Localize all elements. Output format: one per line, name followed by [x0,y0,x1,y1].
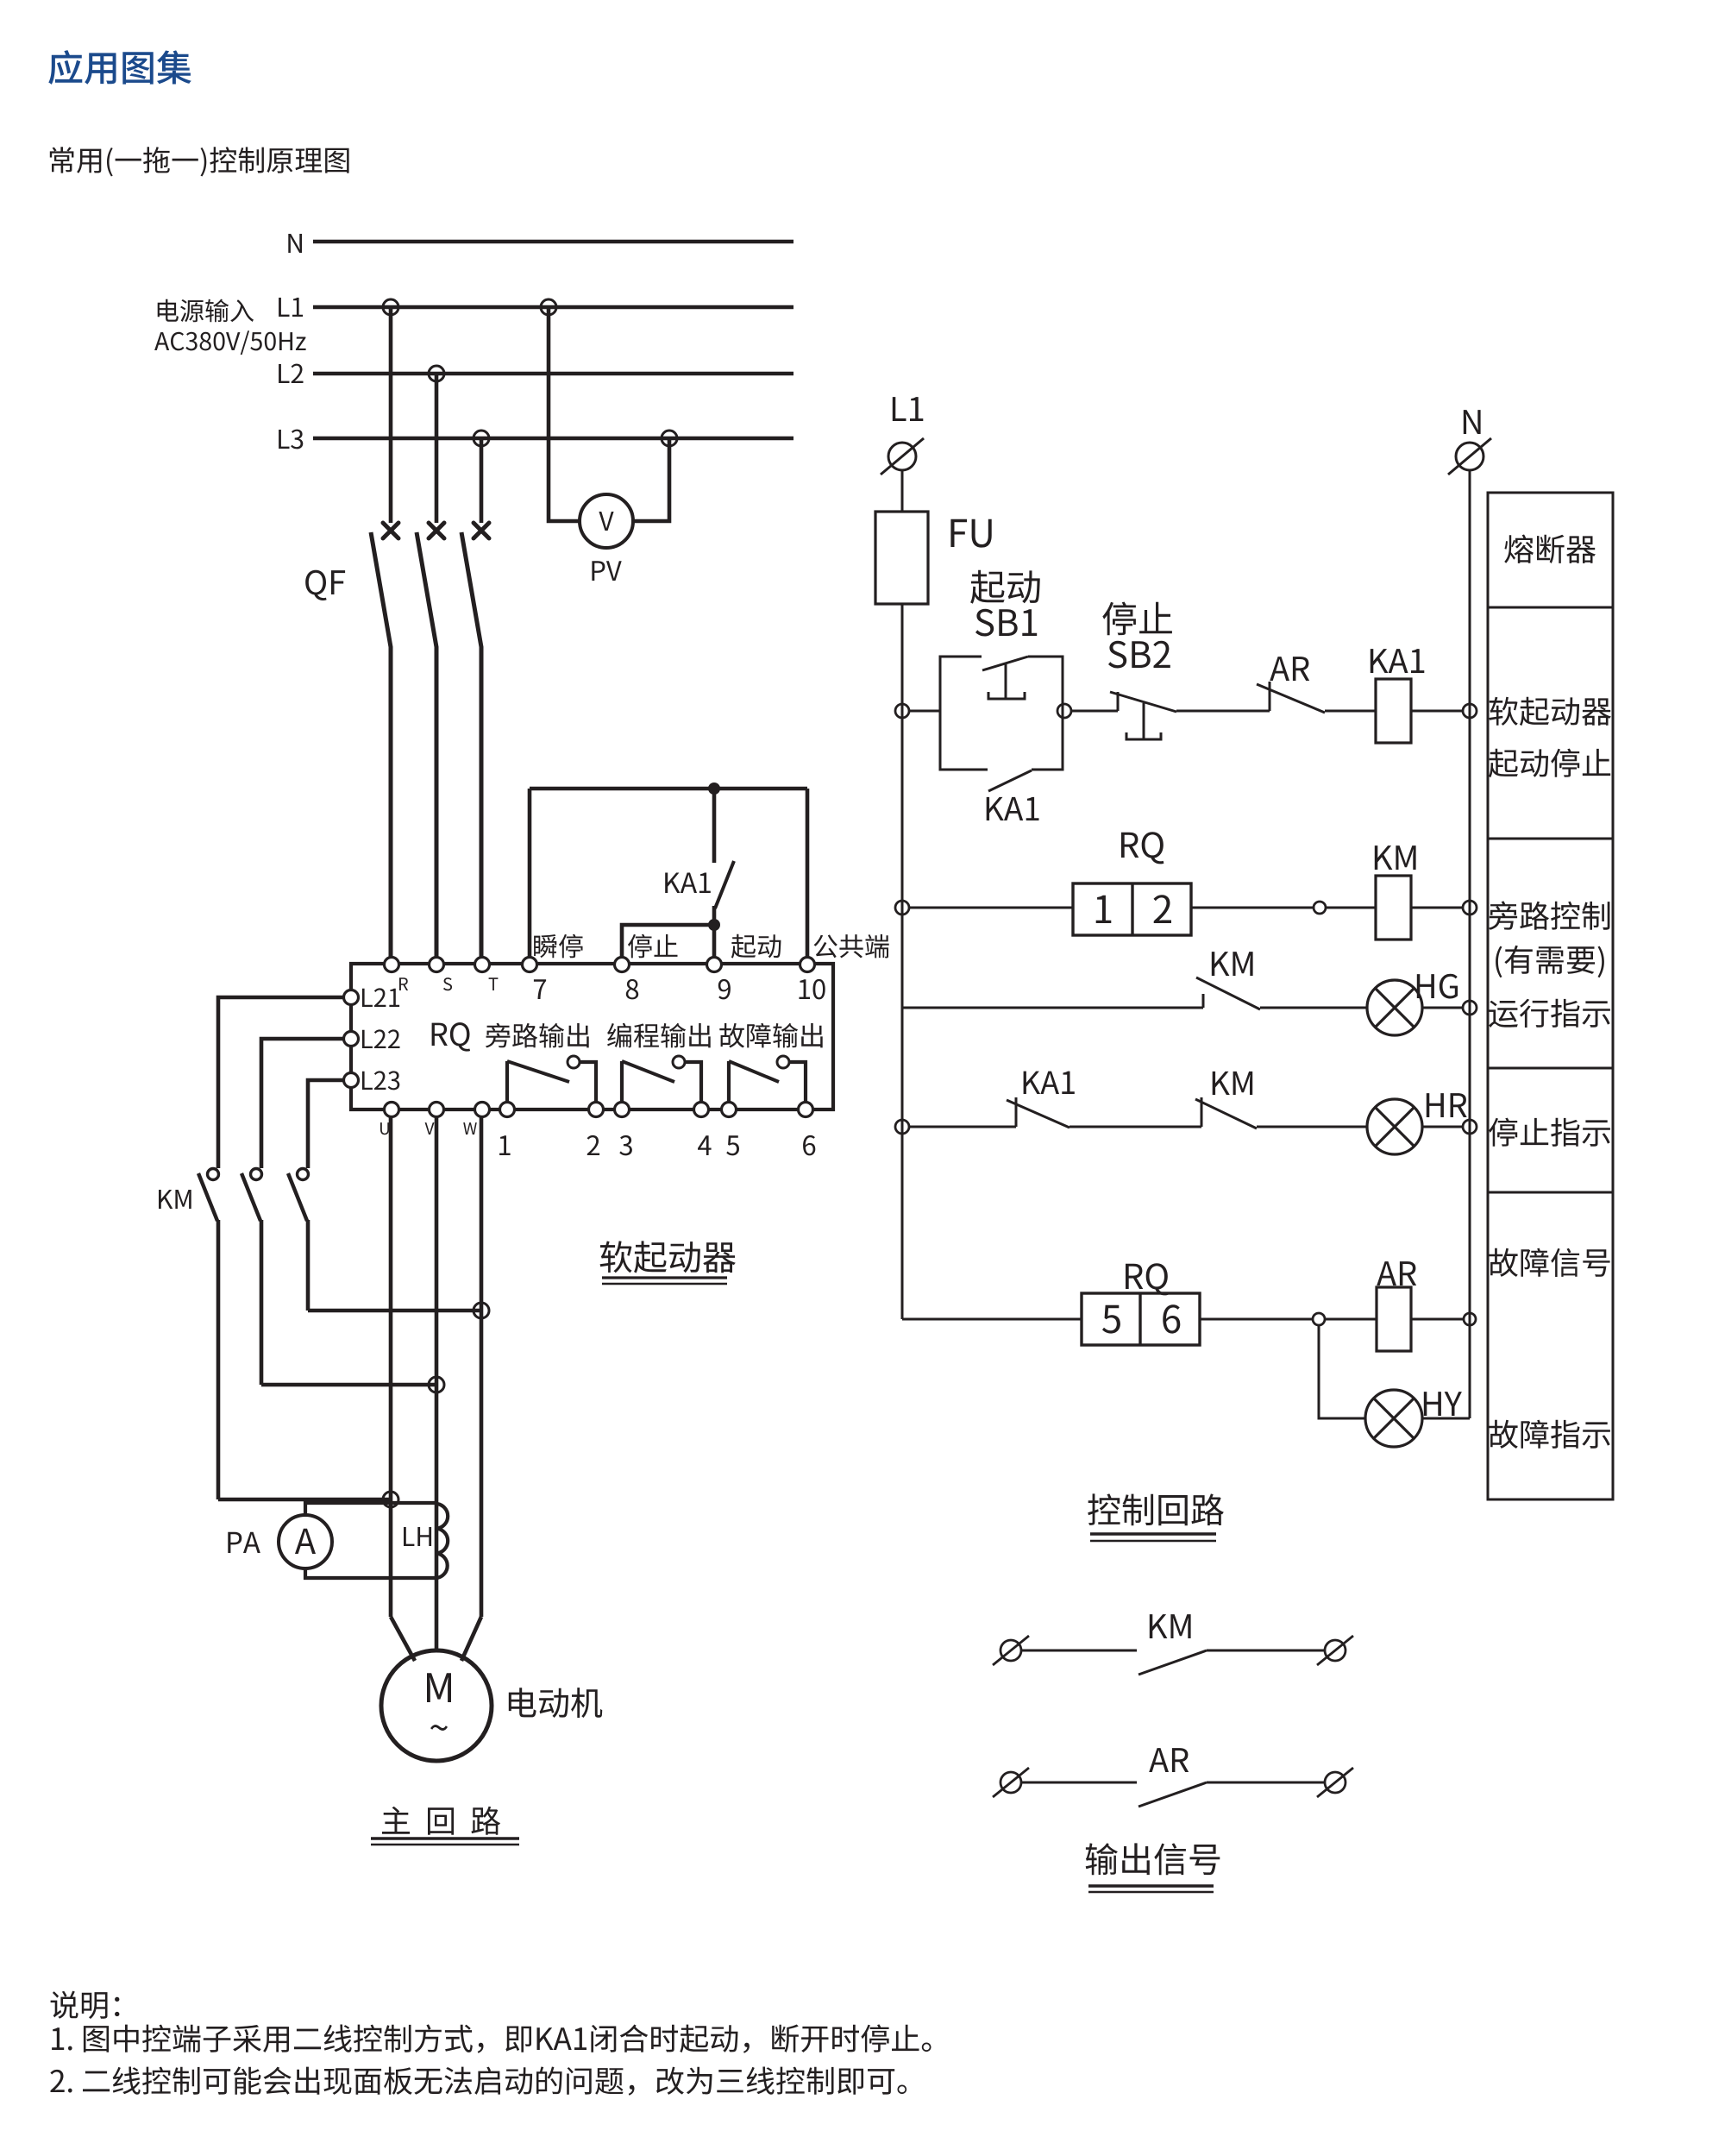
wire rung2 c [1326,907,1376,909]
wire rung4 a [909,1126,1016,1128]
wire rung2 b [1191,907,1314,909]
wire L2 tap to QF pole 2 [435,374,439,523]
wire rung4 b [1069,1126,1201,1128]
terminal 10 [800,958,825,1000]
contact AR break (NC) [1257,682,1325,713]
wire rung1 a [909,710,940,713]
junction V bypass [429,1377,444,1392]
terminal 6 [799,1103,816,1156]
circuit breaker QF pole 3 [461,523,489,958]
wire rung1 e [1411,710,1463,713]
junction U bypass [383,1492,398,1507]
node L3 bus label [279,430,303,449]
wire rung5 b [1200,1318,1313,1321]
label KM aux contact [1212,952,1253,976]
junction above terminal 9 [708,919,720,931]
label RQ block 1-2 [1121,832,1164,864]
pushbutton SB1 start with parallel KA1 contact bracket [940,657,1063,770]
junction L3-QF [474,431,489,446]
circuit breaker QF label [305,570,345,600]
terminal block RQ 1-2 [1073,883,1191,935]
wire N rail [1469,470,1471,1418]
wire L2 bus [313,372,793,376]
wire L1 rail [901,604,904,1319]
terminal R [385,958,409,991]
circuit breaker QF pole 1 [371,523,398,958]
terminal 5 [722,1103,740,1156]
contact KM aux NO [1196,977,1260,1009]
subtitle 常用(一拖一)控制原理图 [50,147,349,176]
terminal T [475,958,499,991]
table cell 旁路控制(有需要)运行指示 [1489,901,1610,1028]
label RQ inside box [432,1022,470,1052]
terminal L21 [344,988,400,1007]
relay coil AR [1377,1287,1411,1351]
label HR [1427,1093,1467,1117]
node N bus label [288,234,302,253]
contact KM break (NC) [1195,1097,1257,1128]
contact KA1 self-hold blade [988,770,1032,791]
wire rung3 a [902,1007,1203,1009]
wire KM pole1 to U line [218,1498,391,1502]
wire W motor lead [461,1617,481,1661]
label 编程输出 [607,1023,711,1048]
wire rung5 d [1411,1318,1464,1321]
wire L3 tap to QF pole 3 [480,438,484,523]
output contact AR [993,1768,1353,1807]
node L1 bus label [279,298,303,317]
terminal 3 [615,1103,632,1156]
contactor KM pole 3 [288,1169,309,1311]
contact KA1 blade (inside box area) [715,861,734,908]
table function list frame [1488,493,1613,1499]
wire U phase [389,1116,393,1617]
title 主回路 with underline [371,1807,519,1845]
wire rung4 d [1422,1126,1463,1128]
label 瞬停 terminal 7 [534,934,582,959]
wire rung2 a [909,907,1073,909]
lamp HG run indicator [1367,980,1422,1035]
label 起动 SB1 [970,570,1040,637]
terminal 2 [587,1103,604,1156]
relay fault output contact 5-6 [729,1056,806,1103]
pushbutton SB2 stop (NC) [1110,692,1176,739]
wire terminal9 riser [712,906,717,957]
table cell 故障指示 [1490,1420,1610,1449]
label 软起动器 with underline [600,1241,736,1284]
table cell 熔断器 [1504,535,1596,564]
current transformer LH winding [436,1504,448,1578]
contactor KM pole 1 [198,1169,219,1500]
junction rung3 N rail [1463,1001,1477,1015]
table cell 故障信号 [1490,1248,1610,1277]
soft starter RQ outline box [351,964,833,1109]
label 故障输出 [719,1023,822,1048]
junction rung2 left [895,901,909,915]
ammeter PA [279,1515,332,1568]
wire control loop top [530,787,807,791]
voltmeter PV label [592,561,621,581]
contact KA1 break (NC) [1007,1097,1069,1128]
notes 说明 [50,1991,931,2096]
wire rung2 d [1411,907,1463,909]
junction L1-QF [383,299,398,315]
lamp HY fault indicator [1365,1390,1422,1447]
wire W phase [480,1116,484,1617]
terminal L22 [344,1029,400,1048]
wire L21 to KM pole1 [218,997,344,1168]
junction W bypass [474,1303,489,1318]
node L2 bus label [279,364,303,383]
wire rung5 a [902,1318,1082,1321]
label RQ block 5-6 [1126,1263,1168,1295]
relay program output contact 3-4 [622,1056,701,1103]
label AR output contact [1149,1748,1189,1772]
terminal W [463,1103,489,1135]
current transformer LH label [404,1527,431,1546]
label KM coil [1375,845,1416,870]
junction rung1 N rail [1463,704,1477,718]
terminal S [430,958,453,991]
wire L1 rail upper [901,470,904,512]
wire N bus [313,240,793,244]
terminal L23 [344,1071,400,1090]
label KM output contact [1150,1614,1191,1638]
terminal V [425,1103,444,1135]
label AR coil [1377,1261,1416,1285]
wire rung4 c [1257,1126,1367,1128]
page title 应用图集 [48,50,191,85]
wire rung3 c [1422,1007,1463,1009]
fuse FU label [950,519,991,548]
wire terminal7 riser [528,789,532,957]
output contact KM [993,1636,1353,1675]
terminal 7 [523,958,547,1000]
wire L3 bus [313,437,793,441]
wire rung3 b [1260,1007,1367,1009]
wire L3 tap to voltmeter [633,438,669,521]
label 停止 SB2 [1102,602,1172,669]
relay bypass output contact 1-2 [507,1056,596,1103]
wire HY branch down [1319,1325,1365,1418]
label 停止 terminal 8 [628,934,678,959]
wire ammeter bottom [305,1568,437,1578]
terminal 4 [694,1103,712,1156]
junction L2-QF [429,366,444,381]
motor M [381,1650,492,1761]
terminal U [380,1103,399,1135]
junction rung4 N rail [1463,1120,1477,1134]
disconnect terminal N control [1448,438,1491,475]
wire KA1 feed [712,789,717,863]
wire KM pole3 to W line [308,1309,481,1313]
node N control label [1464,410,1481,434]
junction control loop top [708,783,720,795]
wire terminal10 riser [806,789,810,957]
disconnect terminal L1 control [881,438,924,475]
ammeter PA label [228,1532,260,1553]
wire rung1 d [1325,710,1376,713]
node rung1 left [895,704,909,718]
terminal 1 [499,1103,514,1156]
wire rung5 c [1325,1318,1377,1321]
wire U motor lead [391,1617,415,1661]
wire rung1 b [1071,710,1118,713]
node rung5 N rail [1464,1313,1476,1325]
wire HY to N rail [1422,1417,1470,1420]
junction rung4 left [895,1120,909,1134]
wire terminal8 link [622,925,714,957]
fuse FU [875,512,928,604]
wire L1 bus [313,305,793,310]
wire KM pole2 to V line [261,1383,436,1387]
label KA1 (above terminal 9) [665,873,711,894]
pushbutton SB1 contact blade [982,657,1028,699]
label 公共端 terminal 10 [814,934,889,959]
junction rung2 N rail [1463,901,1477,915]
label KA1 break contact [1024,1072,1075,1094]
voltmeter PV [580,494,633,548]
table cell 停止指示 [1489,1118,1610,1147]
title 输出信号 with underline [1086,1843,1220,1892]
wire V phase [435,1116,439,1650]
terminal 9 [707,958,731,1000]
circuit breaker QF pole 2 [417,523,444,958]
contactor KM label [159,1190,191,1209]
wire L22 to KM pole2 [261,1039,344,1168]
label HG [1417,974,1458,999]
junction L3-PV [662,431,677,446]
terminal 8 [615,958,639,1000]
wire rung1 c [1176,710,1270,713]
motor label 电动机 [509,1688,602,1718]
title 控制回路 with underline [1088,1493,1224,1541]
label KA1 self-hold [987,797,1039,820]
label KM break contact [1213,1072,1253,1095]
label HY [1424,1392,1462,1416]
wire L1 tap to voltmeter [549,307,580,521]
relay coil KA1 [1376,679,1411,743]
label 电源输入 AC380V/50Hz [154,299,306,355]
node rung2 before KM coil [1314,902,1326,914]
label 起动 terminal 9 [731,934,781,959]
label 旁路输出 [486,1023,589,1048]
node rung1 right of SB1 [1057,704,1071,718]
wire L1 tap to QF pole 1 [389,307,393,523]
lamp HR stop indicator [1367,1099,1422,1154]
label AR contact [1270,657,1309,681]
table cell 软起动器起动停止 [1489,697,1611,778]
wire ammeter top [305,1503,437,1515]
contactor coil KM [1376,876,1411,940]
contactor KM pole 2 [241,1169,262,1386]
junction L1-PV [541,299,556,315]
node L1 control label [893,397,924,421]
label KA1 coil [1371,649,1425,673]
node rung5 branch [1313,1313,1325,1325]
wire L23 to KM pole3 [308,1080,344,1168]
terminal block RQ 5-6 [1082,1293,1200,1345]
